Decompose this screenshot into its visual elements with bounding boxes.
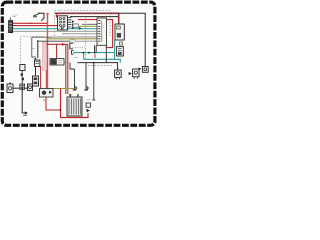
wire black c xyxy=(38,40,70,42)
wire red battery feed xyxy=(44,44,68,94)
connector bracket K1 xyxy=(70,43,73,49)
wire black left drop2 xyxy=(35,67,37,77)
wire gray dashed mid2 xyxy=(88,65,112,67)
wire red connector a xyxy=(13,22,48,24)
connector bracket K2 xyxy=(72,51,74,55)
dashed enclosure top (handlebar group) xyxy=(21,10,110,64)
wire black outer L xyxy=(32,37,52,57)
wire red left drop xyxy=(40,66,42,89)
connector hook xyxy=(42,19,45,22)
lamp L3 xyxy=(139,67,149,73)
ignition switch IG xyxy=(56,14,74,30)
switch H2 xyxy=(28,84,33,91)
wire olive meter link xyxy=(53,88,75,90)
lamp L1 xyxy=(115,70,122,79)
label tag small xyxy=(70,40,75,42)
wire gray stub xyxy=(82,23,97,25)
junction box JB xyxy=(97,18,107,45)
wire red meter drop xyxy=(46,97,61,110)
wire gray dashed drop xyxy=(85,18,87,60)
wire black switch feed xyxy=(39,13,44,19)
wire olive b xyxy=(46,38,97,40)
relay C2 xyxy=(117,47,124,56)
connector arrow red xyxy=(62,43,66,46)
ground lug xyxy=(25,111,28,114)
wire teal low bus xyxy=(84,59,121,62)
fuse FS xyxy=(86,103,90,112)
wire gray b xyxy=(52,36,97,38)
wire red band tail xyxy=(45,70,47,89)
wire maroon main feed xyxy=(55,13,119,26)
wire red connector b xyxy=(13,25,58,27)
connector CN2 xyxy=(73,24,79,28)
wire black left drop xyxy=(37,40,39,58)
inner background xyxy=(5,5,153,123)
connector CN1 xyxy=(9,18,13,33)
wire red battery loop xyxy=(61,89,89,118)
horn H1 xyxy=(7,82,13,93)
wire black terminal drop b xyxy=(84,63,88,90)
wire black ground drop xyxy=(22,88,25,113)
meter MS xyxy=(40,89,54,98)
wire olive a xyxy=(78,25,97,27)
wire teal from connector xyxy=(13,28,97,30)
wire gray dashed mid xyxy=(64,62,70,64)
label specks xyxy=(13,15,91,101)
battery BT xyxy=(67,94,82,116)
connector arrow extra xyxy=(79,27,82,30)
fuse stack F1 xyxy=(20,65,25,90)
lamp L2 xyxy=(129,69,139,79)
wire gray low xyxy=(13,30,97,32)
wire gray c xyxy=(70,40,97,42)
wire black fuse drop xyxy=(93,63,95,100)
red tick xyxy=(94,54,96,58)
wire black mid bus xyxy=(78,63,118,70)
wire red main drop xyxy=(46,14,48,90)
wire pink band xyxy=(42,42,46,70)
junction dot red xyxy=(30,22,32,24)
junction dots xyxy=(21,52,95,111)
pilot P1 xyxy=(33,76,39,86)
border frame (dashed) xyxy=(2,2,155,125)
foot tick fuse drop xyxy=(92,99,95,101)
switch SW2 xyxy=(35,58,40,67)
relay C1 xyxy=(115,24,124,40)
wire gray a xyxy=(62,33,97,35)
wire black JB pin drops xyxy=(95,45,107,62)
wire black bus xyxy=(70,16,118,18)
wire black tail feed xyxy=(119,13,146,66)
wire black horn bus xyxy=(13,87,28,89)
wire gray dotted link xyxy=(70,47,85,49)
switch S1 xyxy=(33,13,40,17)
link C1-C2 xyxy=(120,42,123,45)
coil CDI xyxy=(50,59,64,66)
wire teal mid bus xyxy=(73,40,115,59)
wire red bus xyxy=(78,20,113,48)
wire black terminal drop a xyxy=(70,63,77,90)
